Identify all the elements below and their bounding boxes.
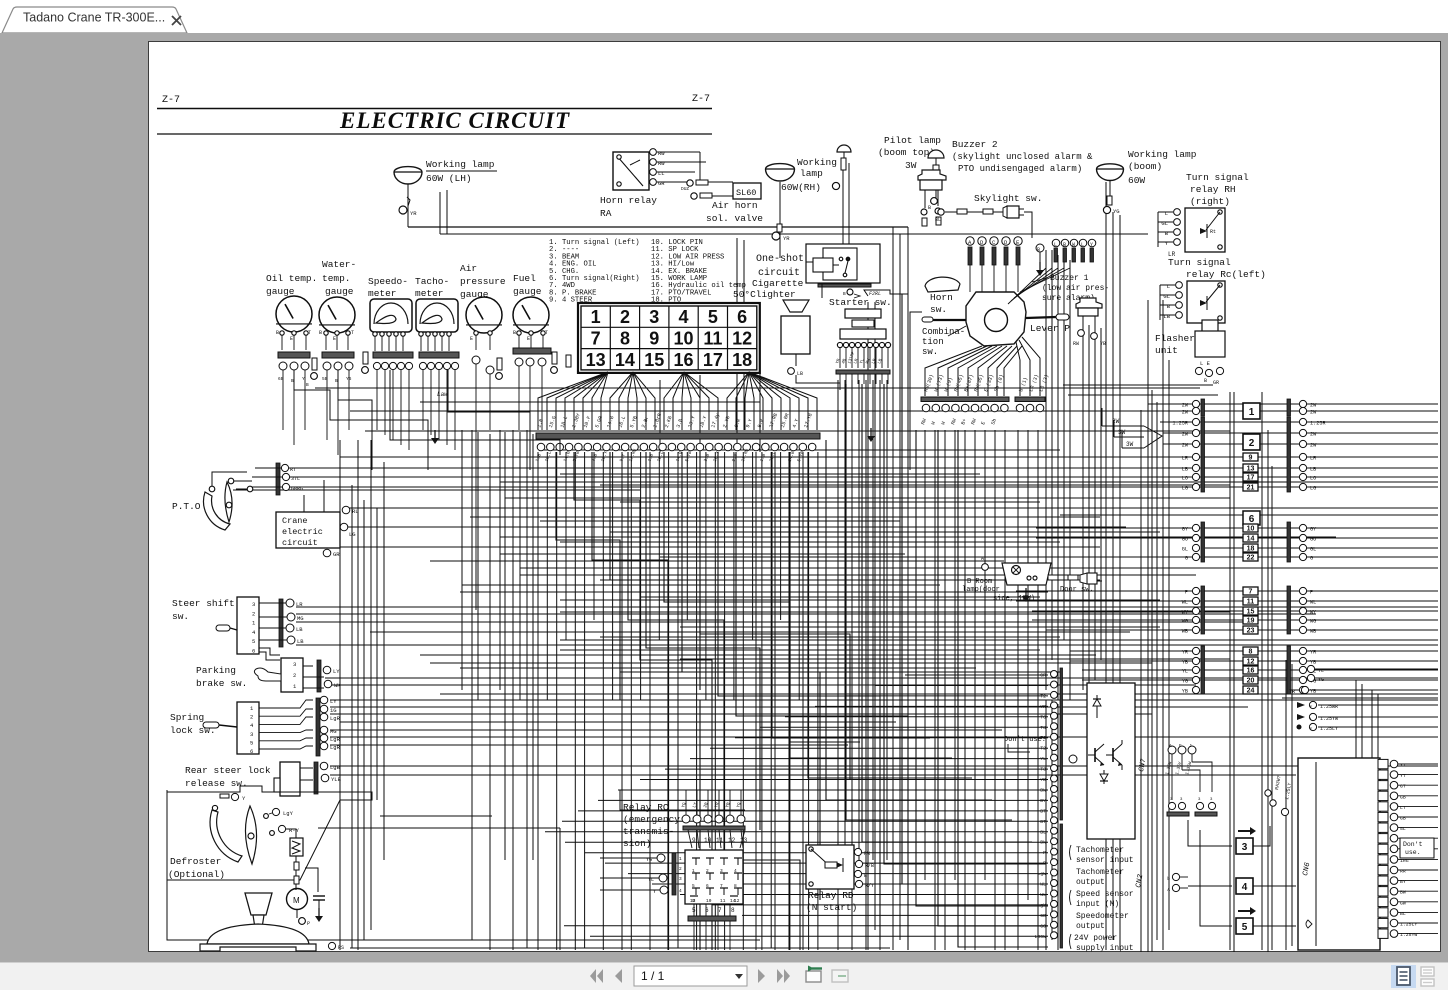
svg-text:Tachometer: Tachometer (1076, 868, 1124, 877)
svg-text:LB: LB (878, 358, 884, 365)
svg-text:sw.: sw. (172, 611, 189, 622)
svg-text:LB: LB (1163, 313, 1170, 320)
svg-text:24V power: 24V power (1074, 934, 1117, 943)
svg-text:GL: GL (1163, 293, 1170, 300)
svg-text:Pilot lamp: Pilot lamp (884, 135, 941, 146)
svg-text:W: W (1072, 242, 1075, 248)
svg-text:Spring: Spring (170, 712, 204, 723)
svg-text:P: P (1043, 861, 1046, 867)
svg-text:Y: Y (1090, 242, 1093, 248)
svg-text:LL: LL (658, 170, 665, 177)
svg-text:YT: YT (1400, 763, 1406, 769)
svg-text:3: 3 (252, 601, 255, 608)
terminal quad (1167, 798, 1217, 816)
svg-text:GBRG: GBRG (291, 486, 303, 492)
svg-text:T6: T6 (1040, 714, 1046, 720)
svg-text:3: 3 (1198, 798, 1201, 802)
terminal B with ground (1036, 244, 1044, 276)
defroster lever track (210, 805, 256, 864)
gear shift knob (245, 893, 272, 928)
svg-text:electric: electric (282, 527, 323, 537)
ground gauge area (431, 430, 439, 444)
svg-text:3W: 3W (905, 160, 917, 171)
svg-text:Flasher: Flasher (1155, 333, 1195, 344)
svg-text:YB: YB (1182, 689, 1188, 695)
connector box 4 (1236, 878, 1253, 894)
svg-text:3W: 3W (1126, 441, 1134, 448)
svg-text:RS: RS (338, 945, 344, 951)
svg-text:17.YB: 17.YB (803, 413, 814, 429)
svg-text:temp.: temp. (322, 273, 351, 284)
tachometer terminals (419, 332, 451, 351)
svg-text:LO: LO (1310, 476, 1316, 482)
label parking brake sw (196, 665, 247, 689)
svg-text:One-shot: One-shot (756, 253, 804, 265)
label pilot lamp (878, 135, 941, 171)
svg-text:5B: 5B (322, 376, 328, 382)
gauge harness staircase 3 (390, 370, 560, 455)
svg-text:20: 20 (1247, 678, 1255, 685)
connector grid 1-18 (578, 303, 760, 373)
svg-text:37L: 37L (291, 476, 300, 482)
svg-text:transmis-: transmis- (623, 826, 674, 837)
label buzzer 2 (952, 139, 1093, 174)
relay RD terminals (854, 848, 874, 889)
svg-text:13: 13 (586, 350, 606, 370)
resistor right of fuel (566, 355, 571, 367)
svg-text:5: 5 (252, 638, 255, 645)
svg-text:B: B (319, 330, 322, 336)
label working lamp boom (1128, 149, 1197, 186)
gauge harness staircase 4 (448, 370, 530, 470)
svg-text:60W: 60W (1128, 175, 1145, 186)
b-room-lamp housing (1002, 563, 1051, 585)
label combination sw (922, 326, 966, 357)
svg-text:2: 2 (1249, 438, 1255, 449)
wires to box 3 (1188, 820, 1270, 846)
svg-text:LG: LG (1310, 486, 1316, 492)
svg-text:Working lamp: Working lamp (426, 159, 495, 170)
svg-text:B Room: B Room (967, 578, 992, 586)
svg-text:14: 14 (615, 350, 635, 370)
svg-text:(right): (right) (1190, 196, 1230, 207)
label speed sensor input (1070, 890, 1134, 909)
svg-text:YB: YB (1100, 341, 1106, 347)
svg-text:RW: RW (864, 851, 870, 857)
relay RC funnel (688, 830, 748, 848)
svg-text:BY: BY (1040, 798, 1046, 804)
relay RD body (806, 845, 854, 889)
svg-text:4B: 4B (842, 358, 848, 365)
svg-text:2W: 2W (1112, 418, 1120, 425)
svg-text:LR: LR (1310, 456, 1316, 462)
buzzer BZ1 (1076, 298, 1102, 316)
label horn relay RA (600, 195, 657, 219)
right connector rows circles and labels (1172, 400, 1325, 694)
label working lamp LH (426, 159, 497, 184)
lamp pilot-small (837, 145, 851, 170)
terminal extra (1069, 755, 1077, 763)
svg-text:1.25R: 1.25R (1172, 421, 1188, 427)
resistor near fuel gauge (551, 352, 558, 373)
svg-text:Turn signal: Turn signal (1186, 172, 1249, 183)
svg-text:3: 3 (293, 661, 296, 668)
svg-text:22: 22 (1247, 555, 1255, 562)
svg-text:1RG: 1RG (1400, 858, 1409, 864)
svg-text:Lever P: Lever P (1030, 323, 1070, 334)
svg-text:4: 4 (679, 307, 689, 327)
svg-text:6: 6 (252, 648, 255, 655)
svg-text:1.25LY: 1.25LY (1400, 922, 1417, 928)
svg-text:WY: WY (1310, 610, 1317, 616)
svg-text:gauge: gauge (325, 286, 354, 297)
svg-text:P: P (307, 921, 310, 927)
buzzer1 stems (1073, 316, 1106, 347)
defroster terminal LgY (264, 808, 294, 818)
svg-text:LR: LR (854, 358, 860, 365)
svg-text:6.R: 6.R (733, 418, 742, 429)
svg-text:use.: use. (1405, 849, 1421, 856)
svg-text:Tacho-: Tacho- (415, 276, 449, 287)
svg-text:10.F: 10.F (583, 415, 593, 428)
svg-text:YG: YG (680, 801, 688, 808)
defroster terminal RY (270, 825, 300, 838)
svg-text:R/B: R/B (865, 863, 874, 869)
svg-text:WG: WG (1182, 619, 1188, 625)
svg-text:Speedometer: Speedometer (1076, 912, 1129, 921)
connector lamp boom stem (1103, 180, 1119, 215)
connector box 3 (1236, 827, 1256, 854)
svg-text:YG: YG (1113, 208, 1120, 215)
svg-text:input (M): input (M) (1076, 900, 1119, 909)
svg-text:WY: WY (1182, 610, 1189, 616)
terminal L 1.25YW (1297, 713, 1438, 722)
svg-text:L: L (1054, 242, 1057, 248)
defroster outline (167, 786, 372, 880)
combination sw left lever (922, 317, 966, 322)
svg-text:LgR: LgR (330, 744, 341, 751)
svg-text:Z-7: Z-7 (692, 94, 710, 105)
combination connector bar left (921, 397, 1009, 412)
svg-text:BT: BT (1040, 819, 1046, 825)
svg-text:lamp: lamp (800, 168, 823, 179)
oil gauge connector (278, 352, 310, 445)
svg-text:15: 15 (1247, 609, 1255, 616)
svg-text:1.35W: 1.35W (1184, 761, 1193, 776)
label b room lamp (962, 578, 1035, 603)
CN6 right pin column (1378, 759, 1438, 938)
svg-text:(boom top): (boom top) (878, 147, 935, 158)
svg-text:13: 13 (690, 898, 696, 904)
svg-text:5.YB: 5.YB (684, 450, 693, 462)
svg-text:13: 13 (1247, 466, 1255, 473)
svg-text:2W: 2W (1182, 443, 1189, 449)
label steer shift sw (172, 598, 235, 622)
svg-text:Door sw.: Door sw. (1060, 586, 1094, 594)
svg-text:Combina-: Combina- (922, 327, 965, 337)
zener D2 (1100, 770, 1108, 784)
svg-text:13: 13 (740, 837, 748, 844)
svg-text:lamp(door: lamp(door (962, 586, 1000, 594)
svg-text:2: 2 (620, 307, 630, 327)
svg-text:RW: RW (970, 418, 978, 426)
combination lower labels (920, 418, 998, 426)
svg-text:2.Br: 2.Br (641, 415, 651, 428)
door switch (1048, 573, 1102, 594)
svg-text:3W: 3W (1118, 429, 1126, 436)
svg-text:BL: BL (1400, 911, 1406, 917)
svg-text:meter: meter (368, 288, 397, 299)
svg-text:Rear steer lock: Rear steer lock (185, 765, 271, 776)
connector box 2 (1243, 434, 1260, 450)
capacitor defroster (313, 896, 325, 922)
switch rear-steer-lock (274, 762, 342, 796)
svg-text:GY: GY (1310, 527, 1317, 533)
svg-text:21: 21 (1247, 485, 1255, 492)
svg-text:Relay RD: Relay RD (808, 890, 854, 901)
svg-text:SL60: SL60 (736, 188, 756, 198)
svg-text:G: G (1185, 556, 1188, 562)
svg-text:RA3W?: RA3W? (1274, 775, 1282, 790)
svg-text:Working: Working (797, 157, 837, 168)
svg-text:YT: YT (1400, 773, 1406, 779)
svg-text:P.T.O: P.T.O (172, 501, 201, 512)
svg-text:2W: 2W (1310, 410, 1317, 416)
svg-text:YB: YB (1040, 777, 1046, 783)
svg-text:(low air pres-: (low air pres- (1042, 284, 1109, 293)
svg-text:17.RB: 17.RB (768, 413, 779, 429)
svg-text:3: 3 (1242, 842, 1248, 853)
svg-text:RW: RW (920, 418, 928, 426)
svg-text:14.B: 14.B (787, 450, 796, 462)
svg-text:1: 1 (1249, 407, 1255, 418)
terminal left of CN6 (1281, 808, 1288, 815)
connector on lamp LH wire (399, 197, 417, 217)
svg-text:WL: WL (1040, 892, 1046, 898)
svg-text:L: L (1081, 242, 1084, 248)
svg-text:LY: LY (333, 668, 340, 675)
svg-text:3.B: 3.B (703, 453, 712, 463)
svg-text:24: 24 (1247, 688, 1255, 695)
lever P arm (1026, 314, 1069, 320)
svg-text:YB: YB (1182, 660, 1188, 666)
connector box 1 (1243, 403, 1260, 419)
legend list items 1-18 (549, 239, 746, 305)
label tachometer sensor input (1070, 845, 1134, 865)
transistor Q1 (1088, 744, 1104, 766)
svg-text:Defroster: Defroster (170, 856, 221, 867)
svg-text:R/Y: R/Y (865, 883, 874, 889)
svg-text:10: 10 (1247, 526, 1255, 533)
combination connector bar right (1015, 397, 1045, 412)
svg-text:T2: T2 (1040, 693, 1046, 699)
svg-text:RW: RW (866, 358, 872, 365)
lamp working-lamp-RH (766, 164, 795, 181)
svg-text:A: A (981, 556, 984, 562)
svg-text:output: output (1076, 922, 1105, 931)
svg-text:Y: Y (302, 376, 305, 382)
relay Rc terminals (1160, 282, 1182, 320)
svg-text:Air horn: Air horn (712, 200, 758, 211)
one-shot circuit box (806, 244, 880, 298)
wires buzzer2 stems (921, 190, 941, 226)
svg-text:2W: 2W (1182, 403, 1189, 409)
svg-text:2: 2 (293, 672, 296, 679)
svg-text:CN2: CN2 (1135, 873, 1145, 888)
combination fan labels (923, 374, 1050, 393)
terminal F 1.25WR (1297, 701, 1438, 710)
label buzzer 1 (1032, 274, 1109, 303)
svg-text:5: 5 (708, 307, 718, 327)
combination sw fan-out wires (925, 337, 1040, 396)
svg-text:B: B (1063, 242, 1066, 248)
svg-text:T: T (308, 330, 311, 336)
relay RC bottom pins (688, 904, 736, 950)
svg-text:1: 1 (591, 307, 601, 327)
svg-text:T2: T2 (1040, 746, 1046, 752)
lamp pilot-boom-top (928, 150, 944, 179)
svg-text:LgY: LgY (283, 810, 294, 817)
svg-text:Steer shift: Steer shift (172, 598, 235, 609)
water gauge terminals (319, 330, 354, 350)
svg-text:LY: LY (330, 698, 337, 705)
gauge harness staircase 5 (475, 560, 477, 610)
fuel gauge terminals (513, 330, 548, 350)
svg-text:T: T (545, 330, 548, 336)
svg-text:YR: YR (836, 358, 842, 365)
svg-text:1.25YW: 1.25YW (1400, 932, 1417, 938)
relay RA terminals (650, 149, 666, 187)
transistor unit box (1087, 683, 1135, 839)
svg-text:LB: LB (296, 626, 303, 633)
svg-text:(Optional): (Optional) (168, 869, 225, 880)
diode D1 (1093, 695, 1101, 718)
svg-text:Speedo-: Speedo- (368, 276, 408, 287)
svg-text:LY: LY (691, 801, 699, 808)
svg-text:TR: TR (1289, 689, 1295, 695)
terminal trio AFJ (1164, 743, 1212, 800)
svg-text:BL: BL (935, 217, 941, 223)
gauge oil-temp (276, 296, 312, 332)
svg-text:Y: Y (1165, 240, 1169, 247)
switch parking-brake (254, 658, 303, 692)
svg-text:GB: GB (1040, 913, 1046, 919)
svg-text:B: B (306, 382, 309, 388)
svg-text:18.Y: 18.Y (600, 450, 609, 462)
label fuel gauge (513, 273, 542, 297)
svg-text:8.R: 8.R (757, 418, 766, 429)
one-shot lower terminals (843, 289, 908, 298)
svg-text:RW: RW (658, 150, 665, 157)
svg-text:GO: GO (1182, 537, 1188, 543)
svg-text:Law: Law (437, 391, 448, 398)
svg-text:5.YB: 5.YB (572, 450, 581, 462)
svg-text:GL: GL (1310, 547, 1316, 553)
svg-text:9: 9 (692, 837, 696, 844)
label air pressure gauge (460, 263, 506, 300)
svg-text:16: 16 (674, 350, 694, 370)
svg-text:Buzzer 1: Buzzer 1 (1050, 274, 1089, 283)
terminal column bars (1060, 668, 1063, 948)
svg-text:supply input: supply input (1076, 944, 1134, 953)
svg-text:Don't use.: Don't use. (1004, 736, 1046, 744)
svg-text:A: A (1167, 887, 1170, 893)
pto connector (252, 463, 303, 495)
svg-text:YG: YG (735, 801, 743, 808)
svg-text:RL: RL (352, 508, 359, 515)
svg-text:16: 16 (1247, 668, 1255, 675)
wire pilot lamp down (928, 179, 937, 211)
svg-text:E: E (290, 336, 293, 342)
svg-text:17: 17 (703, 350, 723, 370)
svg-text:8: 8 (620, 328, 630, 348)
svg-text:1.B: 1.B (534, 453, 543, 463)
connector CN6 box (1298, 758, 1380, 950)
svg-text:(N start): (N start) (806, 902, 857, 913)
svg-text:2W: 2W (1310, 443, 1317, 449)
svg-text:Z-7: Z-7 (162, 95, 180, 106)
svg-text:WL: WL (1310, 600, 1316, 606)
svg-text:L: L (1167, 283, 1170, 290)
svg-text:GT: GT (1400, 784, 1406, 790)
svg-text:RW: RW (1073, 341, 1079, 347)
wire bottom rule (157, 133, 712, 135)
connector box 6 (1243, 511, 1260, 525)
svg-text:LB: LB (797, 371, 803, 377)
svg-text:B: B (276, 330, 279, 336)
wires relay RA to bus (657, 152, 706, 183)
label speedometer output (1076, 912, 1129, 931)
svg-text:BW: BW (1400, 890, 1406, 896)
svg-text:pressure: pressure (460, 276, 506, 287)
horn-sw lever (925, 277, 960, 292)
svg-text:circuit: circuit (282, 538, 318, 548)
svg-text:BW: BW (1040, 840, 1046, 846)
svg-text:WB: WB (1310, 629, 1316, 635)
svg-text:b: b (1167, 876, 1170, 882)
wire skylight sw run (935, 209, 1032, 238)
wire lamp RH down (779, 245, 781, 258)
svg-text:GW: GW (1400, 900, 1406, 906)
grid fan-out wires (538, 372, 817, 430)
svg-text:LG: LG (349, 531, 356, 538)
svg-text:9.Y: 9.Y (618, 453, 627, 463)
svg-text:G: G (1310, 556, 1313, 562)
gauge air-pressure (466, 297, 502, 333)
svg-text:18: 18 (732, 350, 752, 370)
svg-text:2W: 2W (1182, 432, 1189, 438)
svg-text:LR: LR (1182, 456, 1188, 462)
svg-text:6: 6 (250, 748, 253, 755)
svg-text:2: 2 (679, 866, 682, 872)
gauge harness staircase 1 (294, 370, 428, 470)
svg-text:YB: YB (1310, 689, 1316, 695)
svg-text:17: 17 (1247, 475, 1255, 482)
svg-text:23: 23 (1247, 628, 1255, 635)
svg-text:E: E (980, 421, 987, 426)
svg-text:5.GR: 5.GR (594, 415, 604, 428)
svg-text:3: 3 (649, 307, 659, 327)
relay RC left terminals (600, 853, 682, 895)
svg-text:10: 10 (704, 837, 712, 844)
box SL60 (733, 183, 761, 199)
switch skylight-sw (1003, 206, 1024, 218)
svg-text:60W(RH): 60W(RH) (781, 182, 821, 193)
switch spring-lock (203, 702, 259, 755)
svg-text:W: W (940, 421, 947, 426)
svg-text:15: 15 (644, 350, 664, 370)
svg-text:gauge: gauge (266, 286, 295, 297)
